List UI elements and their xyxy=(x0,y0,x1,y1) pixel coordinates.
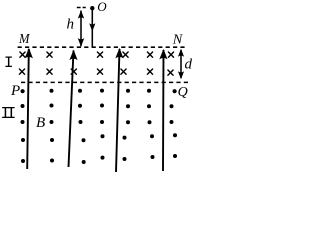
svg-text:M: M xyxy=(18,32,31,47)
wire: drop line from O xyxy=(91,9,93,47)
svg-text:O: O xyxy=(97,0,107,14)
x symbols row 1 xyxy=(20,52,174,57)
arrowhead down on drop line xyxy=(89,23,95,31)
svg-text:P: P xyxy=(10,83,20,99)
svg-text:N: N xyxy=(172,32,183,47)
field line 1 xyxy=(27,49,29,169)
svg-text:I: I xyxy=(6,104,16,123)
x symbols row 2 xyxy=(19,69,173,75)
arrowhead field line 1 xyxy=(25,48,33,59)
arrowhead down of d line xyxy=(178,71,184,79)
arrowhead field line 4 xyxy=(159,49,167,60)
dashed line PQ xyxy=(21,81,190,83)
dashed line MN xyxy=(18,46,186,48)
field line 2 xyxy=(69,51,74,168)
svg-text:I: I xyxy=(4,54,14,72)
field dots region II xyxy=(21,89,178,164)
field line 4 xyxy=(162,50,165,171)
arrowhead up of h line xyxy=(78,10,84,18)
svg-text:d: d xyxy=(185,57,193,73)
wire: d measure line xyxy=(180,50,182,78)
arrowhead field line 2 xyxy=(69,50,77,61)
arrowhead field line 3 xyxy=(115,48,123,59)
arrowhead up of d line xyxy=(178,49,184,57)
field line 3 xyxy=(116,49,120,172)
wire: h measure line xyxy=(80,11,82,47)
dashed level line at O xyxy=(77,7,86,9)
point O xyxy=(90,6,94,10)
svg-text:Q: Q xyxy=(178,85,188,100)
svg-text:h: h xyxy=(67,16,75,32)
svg-text:B: B xyxy=(36,115,45,131)
arrowhead down of h line xyxy=(78,38,85,47)
